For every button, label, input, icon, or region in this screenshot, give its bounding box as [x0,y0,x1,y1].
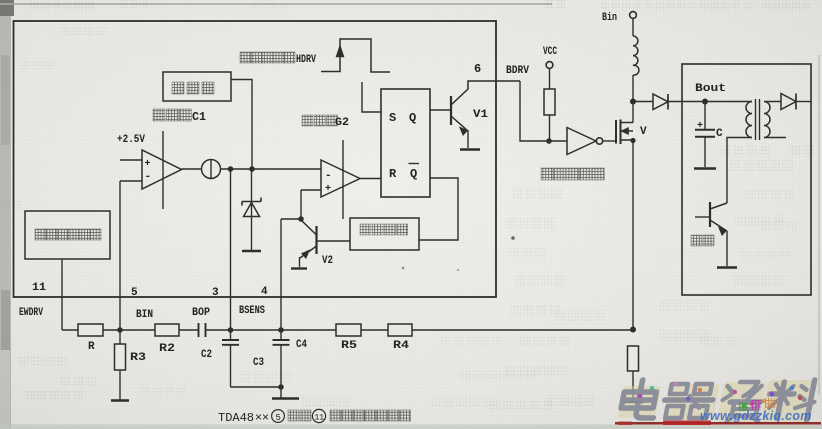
svg-text:R3: R3 [130,352,146,364]
svg-text:Bin: Bin [602,12,617,24]
svg-text:-: - [325,170,332,182]
svg-text:HDRV: HDRV [296,54,316,66]
svg-text:BOP: BOP [192,307,210,319]
svg-text:www.gdzzkiq.com: www.gdzzkiq.com [700,409,812,423]
svg-text:V: V [640,126,647,138]
svg-text:5: 5 [276,413,281,423]
svg-text:11: 11 [315,414,325,423]
svg-text:××: ×× [255,410,269,424]
svg-text:+: + [325,184,331,195]
svg-text:5: 5 [131,287,138,299]
svg-text:TDA48: TDA48 [218,411,254,425]
svg-text:C4: C4 [296,339,307,351]
svg-text:EWDRV: EWDRV [19,307,43,319]
svg-text:+: + [697,121,703,132]
svg-text:R: R [389,167,397,181]
svg-text:BSENS: BSENS [239,305,265,317]
svg-text:+2.5V: +2.5V [117,134,145,146]
svg-text:3: 3 [212,287,219,299]
svg-text:R5: R5 [341,340,357,352]
svg-text:+: + [145,159,151,170]
svg-text:BIN: BIN [136,309,153,321]
svg-text:Q: Q [410,167,417,181]
svg-text:V1: V1 [473,109,488,121]
svg-text:R4: R4 [393,340,409,352]
svg-text:VCC: VCC [543,46,557,58]
svg-text:C1: C1 [192,110,206,124]
svg-text:Bout: Bout [695,83,726,95]
svg-text:C2: C2 [201,349,212,361]
svg-text:4: 4 [261,286,268,298]
svg-text:G2: G2 [335,117,349,129]
svg-text:6: 6 [474,62,481,76]
svg-text:Q: Q [409,111,416,125]
svg-text:-: - [145,171,152,183]
svg-text:11: 11 [32,282,46,294]
svg-text:V2: V2 [322,255,333,267]
svg-text:R2: R2 [159,343,175,355]
svg-text:S: S [389,111,396,125]
svg-text:BDRV: BDRV [506,65,529,77]
svg-text:C: C [716,128,723,140]
svg-text:R: R [88,341,95,353]
svg-text:C3: C3 [253,357,264,369]
